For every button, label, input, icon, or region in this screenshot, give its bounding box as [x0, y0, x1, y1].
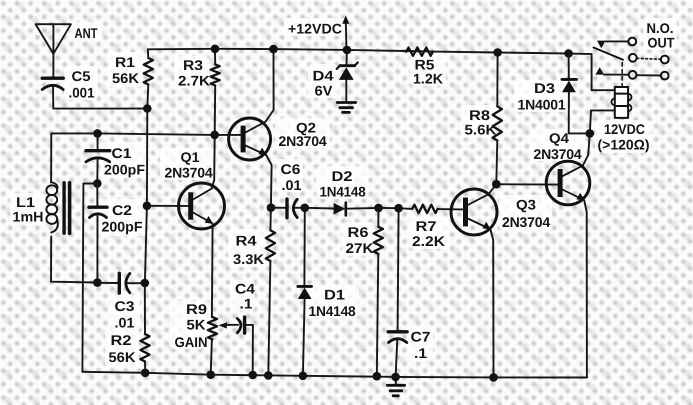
svg-text:1.2K: 1.2K	[413, 71, 443, 87]
wire: L1 bottom down and right to C3 left node	[51, 237, 97, 283]
junction: Q1 base node	[143, 202, 152, 211]
wire: D2 cathode to R6 node	[346, 207, 379, 210]
svg-text:12VDC: 12VDC	[604, 121, 645, 137]
capacitor C6	[287, 199, 297, 218]
svg-text:C1: C1	[112, 145, 132, 161]
capacitor C7	[388, 332, 407, 377]
diode D3 1N4001	[562, 54, 590, 134]
svg-text:2N3704: 2N3704	[279, 133, 327, 149]
wire: antenna to C5	[52, 54, 54, 77]
svg-text:2N3704: 2N3704	[534, 146, 582, 162]
junction: R2 on ground rail	[141, 369, 150, 378]
junction: C1 top on tank wire	[93, 129, 102, 138]
svg-text:R6: R6	[348, 224, 369, 240]
wire: bus corner down to R1	[147, 49, 149, 58]
wire: C3 left lead	[97, 282, 117, 284]
wire: Q1 base lead	[147, 205, 188, 207]
svg-text:1N4148: 1N4148	[320, 184, 366, 200]
inductor L1 core bars	[62, 183, 65, 233]
junction: R4 on rail	[264, 371, 273, 380]
wire: R3 bottom lead	[214, 85, 217, 134]
wire: tap left and down to ground rail	[82, 184, 97, 372]
junction: R6 on rail	[373, 372, 382, 381]
svg-text:D2: D2	[332, 168, 353, 184]
junction: R3 bottom / Q1 collector / Q2 base	[210, 131, 219, 140]
wire: R7 right to Q3 base	[438, 208, 463, 210]
svg-text:D4: D4	[313, 68, 334, 84]
svg-text:OUT: OUT	[648, 35, 675, 51]
wire: Q3 emitter down to rail	[490, 229, 493, 377]
junction: R6 top	[374, 204, 383, 213]
svg-text:1N4148: 1N4148	[309, 303, 356, 319]
junction: Q3 emitter on rail	[489, 373, 498, 382]
wire: C2 bottom to C3 left node	[96, 214, 98, 283]
svg-text:Q4: Q4	[549, 130, 569, 146]
svg-text:1mH: 1mH	[13, 209, 44, 225]
svg-text:C5: C5	[72, 68, 91, 84]
junction: C7 / ground on rail	[391, 373, 400, 382]
relay N.C. contact (upper)	[597, 38, 636, 49]
svg-text:.001: .001	[69, 85, 95, 101]
wire: Q1 base node down to C3 node	[145, 206, 147, 283]
resistor R8	[493, 106, 502, 140]
relay common terminal (middle)	[629, 54, 669, 64]
wire: C5 down and right to node A	[53, 86, 147, 109]
ground (main rail)	[387, 377, 404, 396]
relay switch arm	[594, 48, 624, 60]
capacitor C3	[119, 273, 130, 293]
wire: node down to R2	[144, 283, 146, 334]
junction: C1/C2 tap	[93, 179, 102, 188]
svg-text:5.6K: 5.6K	[465, 122, 497, 138]
svg-text:C7: C7	[411, 329, 431, 345]
svg-text:ANT: ANT	[75, 25, 98, 41]
wire: relay coil bottom terminal to Q4 collector node	[590, 110, 615, 133]
svg-text:R1: R1	[115, 54, 135, 70]
svg-text:C4: C4	[235, 281, 255, 297]
transistor Q2 2N3704	[229, 118, 271, 160]
svg-text:C2: C2	[112, 202, 132, 218]
capacitor C2	[89, 207, 107, 217]
wire: C6 to D1/D2 node	[295, 207, 305, 209]
svg-text:27K: 27K	[346, 240, 374, 256]
wire: D1 lead down	[303, 208, 305, 285]
transistor Q1 2N3704	[179, 183, 225, 229]
junction: R3 top on bus	[211, 45, 220, 54]
svg-text:.01: .01	[282, 177, 302, 193]
junction node A (C5/R1)	[143, 104, 152, 113]
inductor L1 coil	[46, 182, 57, 233]
wire: Q2 emitter down to C6/R4 node	[266, 155, 271, 208]
junction: R8 top on bus	[493, 48, 502, 57]
junction: C6 / D2 / D1	[301, 204, 310, 213]
svg-text:200pF: 200pF	[102, 219, 143, 235]
transistor Q3 2N3704	[451, 189, 497, 235]
svg-text:R9: R9	[186, 301, 207, 317]
svg-text:D3: D3	[534, 80, 555, 96]
svg-text:56K: 56K	[112, 70, 139, 86]
svg-text:2.7K: 2.7K	[178, 73, 210, 89]
diode D1 1N4148	[298, 286, 312, 375]
junction: R9 on rail	[206, 370, 215, 379]
capacitor C1	[86, 151, 110, 162]
svg-text:GAIN: GAIN	[175, 334, 208, 350]
junction: D3 / Q4 collector / relay coil	[586, 129, 595, 138]
svg-text:6V: 6V	[315, 83, 334, 99]
wire: bus end down to relay coil top terminal	[592, 54, 615, 90]
wire: R3 top lead to bus	[214, 49, 216, 65]
svg-text:R2: R2	[111, 332, 132, 348]
ground (below D4)	[337, 103, 356, 113]
svg-text:R3: R3	[183, 57, 203, 73]
svg-text:(>120Ω): (>120Ω)	[598, 137, 650, 153]
wire: tap down to C2	[96, 184, 98, 207]
junction: D3 top on bus	[564, 49, 573, 58]
resistor R1	[144, 58, 153, 85]
wire: bus to R8 top	[496, 53, 498, 107]
wire: ground rail	[82, 372, 587, 378]
svg-text:D1: D1	[324, 287, 345, 303]
resistor R7	[412, 205, 437, 213]
svg-text:2N3704: 2N3704	[502, 214, 550, 230]
wire: node to C6	[271, 207, 286, 209]
capacitor C4	[237, 317, 244, 333]
svg-text:Q1: Q1	[181, 149, 200, 165]
svg-text:2N3704: 2N3704	[165, 165, 213, 181]
wire: C3 right lead to node	[128, 282, 145, 284]
wire: R9 bottom to rail	[211, 339, 212, 374]
wire: R1 bottom to node A	[147, 85, 148, 109]
junction: R8 / Q3 collector / Q4 base	[492, 180, 501, 189]
junction: D1 on rail	[299, 372, 308, 381]
svg-text:+12VDC: +12VDC	[288, 21, 342, 37]
svg-text:.1: .1	[414, 345, 427, 361]
wire: C1 bottom to tap node	[96, 158, 98, 184]
svg-text:2.2K: 2.2K	[412, 233, 445, 249]
wire: Q1 collector up to R3/Q2 junction	[212, 135, 215, 189]
resistor R6	[374, 227, 383, 254]
wire: node A down to Q1 base node	[146, 109, 148, 206]
relay coil 12VDC	[611, 87, 631, 118]
wire: R6 top lead	[377, 208, 379, 227]
svg-text:R7: R7	[416, 218, 437, 234]
svg-text:3.3K: 3.3K	[233, 251, 264, 267]
svg-text:.1: .1	[240, 296, 253, 312]
antenna ANT	[36, 24, 71, 54]
wire: C1 top lead	[97, 133, 99, 149]
relay actuation dashed link	[621, 63, 623, 87]
junction: C4 on rail	[248, 371, 257, 380]
wire: Q2 collector up to bus	[266, 49, 274, 121]
svg-text:1N4001: 1N4001	[518, 97, 566, 113]
wire: Q3 collector to node	[488, 184, 496, 194]
wire: R4 bottom lead to rail	[268, 261, 270, 375]
wire: R6 bottom lead to rail	[377, 254, 379, 376]
wire: node to D2 anode	[305, 207, 334, 210]
wire: R2 bottom to rail	[144, 362, 146, 373]
wire: +12V top bus	[148, 49, 592, 54]
wire: Q1 emitter down to R9	[211, 224, 214, 318]
svg-text:200pF: 200pF	[104, 162, 145, 178]
junction: +12VDC / D4 on bus	[343, 46, 352, 55]
resistor R4	[266, 230, 275, 261]
wire: tank top corner down to L1	[50, 133, 52, 182]
junction: Q2 collector on bus	[269, 45, 278, 54]
wire: node to R7 left	[399, 207, 413, 210]
wire: node to Q4 base	[496, 183, 558, 185]
wire: tank top horizontal (L1/C1 to R3 junction and Q2 base)	[51, 133, 241, 135]
svg-text:.01: .01	[115, 315, 135, 331]
wire: Q4 collector up to coil node	[583, 133, 590, 165]
svg-text:5K: 5K	[187, 317, 206, 333]
potentiometer R9 5K	[208, 317, 238, 339]
capacitor C5	[42, 78, 63, 89]
wire: C4 right plate to rail	[245, 325, 253, 375]
transistor Q4 2N3704	[546, 161, 590, 205]
wire: Q4 emitter down to rail corner	[584, 200, 587, 377]
zener diode D4	[337, 50, 358, 102]
wire: R8 bottom to Q3 collector node	[496, 141, 497, 185]
wire: R6 node to C7 node	[379, 207, 399, 209]
resistor R2	[140, 334, 149, 361]
junction: C3 left node	[93, 278, 102, 287]
svg-text:R4: R4	[236, 233, 257, 249]
diode D2 1N4148	[334, 203, 346, 216]
relay N.O. contact (lower)	[595, 67, 668, 79]
resistor R5	[406, 48, 433, 56]
resistor R3	[211, 64, 220, 85]
junction: C7 / R7 node	[394, 204, 403, 213]
wire: C7 lead down	[398, 208, 399, 330]
junction: Q2 emitter / R4 / C6	[267, 203, 276, 212]
junction: C3 right / R2 / Q1 base line	[141, 279, 150, 288]
wire: R4 top lead	[269, 208, 272, 231]
svg-text:C6: C6	[281, 161, 301, 177]
power +12VDC arrow	[342, 16, 349, 50]
svg-text:Q3: Q3	[516, 197, 536, 213]
svg-text:C3: C3	[115, 298, 135, 314]
svg-text:56K: 56K	[109, 349, 136, 365]
